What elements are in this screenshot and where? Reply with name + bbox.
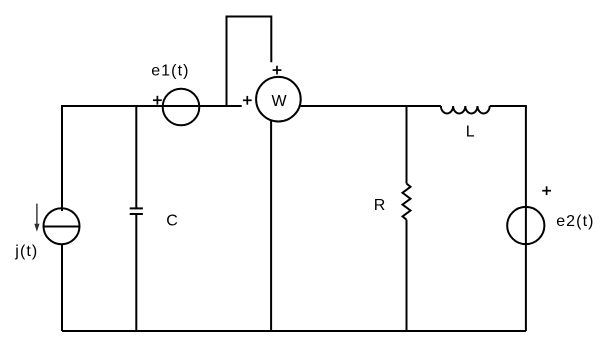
svg-text:e1(t): e1(t) <box>151 63 189 80</box>
svg-text:j(t): j(t) <box>14 243 38 260</box>
svg-text:R: R <box>374 197 386 214</box>
svg-text:L: L <box>466 123 475 140</box>
svg-text:e2(t): e2(t) <box>556 213 594 230</box>
svg-text:C: C <box>166 213 178 230</box>
svg-text:W: W <box>272 93 288 110</box>
